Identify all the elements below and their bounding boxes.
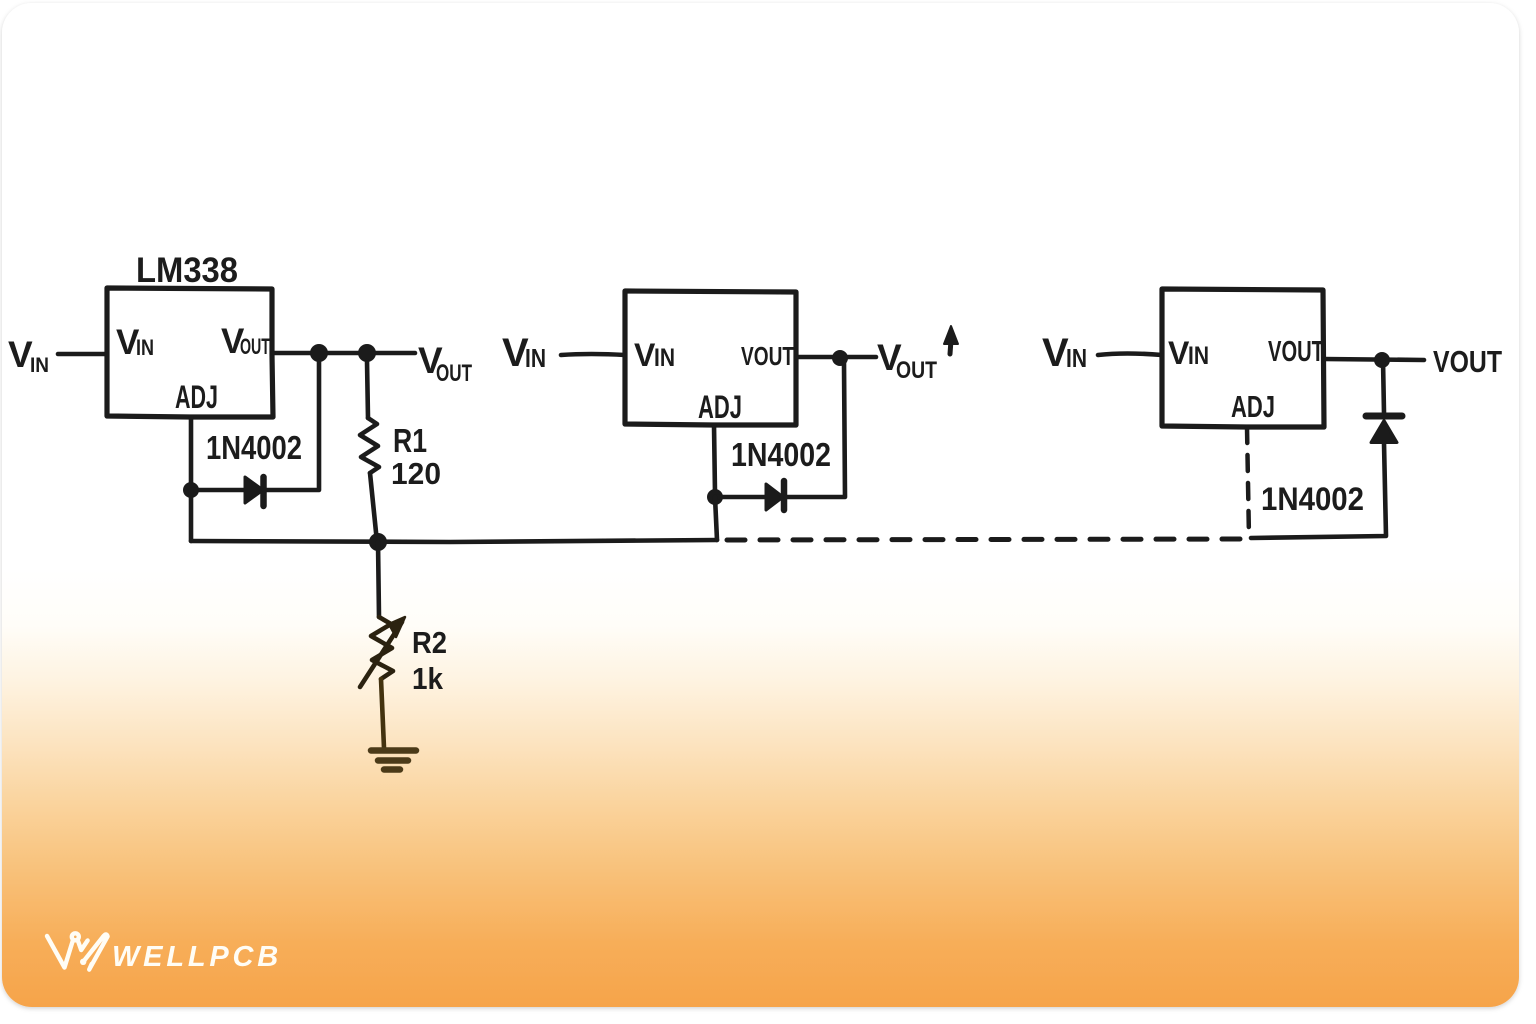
- wire U2 ADJ down: [714, 425, 715, 493]
- U1 pin label VIN: [116, 323, 154, 362]
- U3 pin label VIN: [1168, 335, 1209, 371]
- svg-text:ADJ: ADJ: [1231, 389, 1275, 424]
- wire C1 to D3: [1383, 360, 1384, 413]
- WellPCB logo mark: [47, 933, 108, 969]
- svg-text:1N4002: 1N4002: [206, 429, 302, 466]
- wire U3 VOUT output: [1324, 359, 1424, 360]
- U1 pin label VOUT: [221, 322, 270, 361]
- svg-text:V: V: [1168, 335, 1190, 371]
- svg-text:120: 120: [391, 456, 441, 491]
- junction dot bus: [369, 533, 387, 551]
- node VOUT output 1 label: [418, 340, 472, 387]
- svg-text:IN: IN: [654, 344, 675, 372]
- dashed wire U3 ADJ: [1247, 427, 1249, 538]
- junction dot ADJ1: [183, 482, 199, 498]
- junction dot A1: [310, 344, 328, 362]
- junction dot A2: [358, 344, 376, 362]
- regulator U1 LM338 box: [107, 288, 273, 417]
- arrow up output 2: [944, 326, 958, 354]
- node VOUT output 2 label: [877, 337, 937, 384]
- svg-text:VOUT: VOUT: [1268, 336, 1324, 368]
- wire R1 bottom lead: [370, 473, 377, 542]
- dashed bus wire: [727, 539, 1251, 540]
- wire U2 VOUT output: [796, 355, 876, 360]
- svg-text:OUT: OUT: [240, 334, 270, 359]
- junction dot C1: [1374, 352, 1390, 368]
- wire B2 to D2: [715, 495, 766, 500]
- node VIN input 3 label: [1042, 331, 1087, 375]
- wire VIN input 2: [561, 354, 625, 355]
- wire ADJ1 to bus: [189, 490, 194, 541]
- svg-text:1N4002: 1N4002: [731, 436, 831, 473]
- wire R1 top lead: [367, 361, 368, 418]
- wire D3 to bottom corner: [1251, 443, 1386, 538]
- wire B2 to bus: [715, 497, 717, 540]
- svg-text:IN: IN: [1066, 343, 1087, 373]
- svg-text:R2: R2: [412, 625, 447, 660]
- svg-text:IN: IN: [1188, 342, 1209, 370]
- svg-text:V: V: [634, 337, 656, 373]
- diode D2 1N4002: [766, 481, 784, 510]
- wire D1 to VOUT node: [264, 361, 319, 490]
- svg-text:R1: R1: [393, 422, 427, 459]
- svg-text:OUT: OUT: [436, 360, 472, 387]
- junction dot B1: [832, 350, 848, 366]
- node VIN input 1 label: [8, 334, 49, 377]
- resistor R2 variable: [360, 617, 405, 687]
- diode D1 1N4002: [245, 477, 264, 506]
- ground: [371, 751, 416, 770]
- svg-text:ADJ: ADJ: [175, 379, 218, 415]
- svg-text:IN: IN: [30, 354, 49, 377]
- svg-text:WELLPCB: WELLPCB: [112, 941, 282, 973]
- wire VIN input 1: [58, 352, 107, 357]
- resistor R1: [360, 418, 379, 473]
- U2 pin label VIN: [634, 337, 675, 373]
- wire U1 VOUT output: [273, 351, 415, 356]
- wire U1 ADJ down: [189, 417, 194, 490]
- svg-text:LM338: LM338: [136, 251, 238, 290]
- regulator U2 box: [625, 291, 796, 425]
- svg-text:IN: IN: [525, 343, 546, 373]
- svg-text:1N4002: 1N4002: [1261, 481, 1364, 517]
- wire ADJ1 to D1: [191, 488, 244, 493]
- svg-text:V: V: [1042, 331, 1069, 375]
- svg-text:OUT: OUT: [896, 357, 937, 384]
- svg-text:VOUT: VOUT: [741, 341, 794, 371]
- svg-text:1k: 1k: [412, 661, 444, 696]
- junction dot B2: [707, 489, 723, 505]
- svg-text:IN: IN: [136, 335, 154, 360]
- wire R2 top lead: [378, 542, 379, 617]
- wire R2 bottom lead: [381, 679, 384, 748]
- diode D3 1N4002 vertical: [1366, 416, 1402, 443]
- svg-text:VOUT: VOUT: [1433, 344, 1502, 379]
- wire D2 to B1: [786, 363, 845, 497]
- regulator U3 box: [1162, 289, 1324, 427]
- wire VIN input 3: [1098, 354, 1162, 356]
- node VIN input 2 label: [502, 331, 546, 375]
- bus wire bottom: [191, 540, 717, 542]
- svg-text:ADJ: ADJ: [698, 389, 742, 425]
